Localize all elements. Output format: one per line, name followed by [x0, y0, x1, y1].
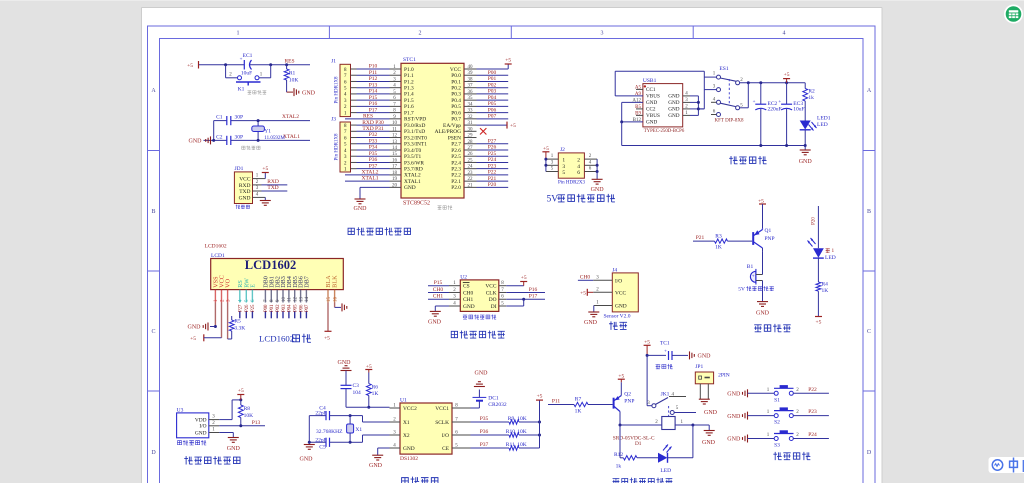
svg-text:P27: P27 [239, 304, 244, 312]
power +5 (reset) [187, 61, 198, 69]
svg-text:GND: GND [668, 107, 679, 113]
svg-text:CR2032: CR2032 [488, 402, 507, 408]
title text LCD1602显示 [259, 334, 311, 344]
svg-text:P16: P16 [369, 101, 378, 107]
comment text 温度传感器 [177, 440, 206, 445]
J4 pin1 to ground [584, 301, 612, 327]
svg-text:VO: VO [225, 278, 232, 287]
svg-text:CH0: CH0 [433, 287, 444, 293]
svg-text:BLK: BLK [332, 275, 339, 288]
JD1 pin 2 wire RXD [253, 179, 288, 185]
capacitor TC1 tantalum [647, 340, 688, 360]
svg-text:RES: RES [363, 113, 373, 119]
svg-text:5V: 5V [738, 287, 745, 293]
svg-text:C5: C5 [319, 444, 326, 450]
JD1 pin 4 wire to ground [253, 192, 271, 205]
svg-text:P35: P35 [369, 151, 378, 157]
svg-text:CC2: CC2 [646, 107, 656, 113]
svg-text:P15: P15 [434, 280, 443, 286]
svg-text:GND: GND [428, 320, 442, 326]
power +5 rail (clock pullups) [536, 394, 543, 448]
svg-text:X2: X2 [403, 433, 410, 439]
svg-text:EA/Vpp: EA/Vpp [443, 123, 461, 129]
svg-text:XTAL2: XTAL2 [282, 114, 299, 120]
power +5 (U3) [237, 388, 244, 400]
buzzer B1 5V [747, 251, 763, 301]
svg-text:P00: P00 [264, 304, 269, 312]
svg-text:P0.4: P0.4 [451, 98, 461, 104]
USB connector USB1 TYPEC-250D-BCP6 [643, 78, 685, 134]
svg-text:P14: P14 [369, 89, 378, 95]
wire switch pin1 pin3 feed [698, 71, 704, 109]
svg-text:P3.4/T0: P3.4/T0 [404, 148, 422, 154]
svg-text:I/O: I/O [442, 433, 449, 439]
capacitor C3 104 [341, 371, 362, 408]
svg-text:XTAL1: XTAL1 [283, 134, 300, 140]
USB1 left pin stubs [636, 89, 643, 115]
resistor R8 10K [238, 400, 253, 426]
svg-text:P15: P15 [369, 95, 378, 101]
svg-text:6: 6 [577, 170, 580, 176]
switch ES1 KFT DIP-8X8 [704, 66, 744, 124]
wire Q2 collector to R12 LED D1 [620, 425, 623, 458]
power +5 (J2) [542, 146, 549, 159]
svg-text:S2: S2 [774, 420, 780, 426]
svg-text:4: 4 [577, 164, 580, 170]
wire P21 base [693, 235, 752, 241]
svg-text:10uF: 10uF [241, 71, 252, 77]
svg-text:P3.3/INT1: P3.3/INT1 [404, 142, 427, 148]
no-ERC cross on pin 30 [480, 128, 486, 134]
svg-text:1K: 1K [822, 288, 829, 294]
svg-text:P0.3: P0.3 [451, 92, 461, 98]
svg-text:GND: GND [702, 440, 716, 446]
svg-text:P24: P24 [488, 157, 497, 163]
svg-text:GND: GND [756, 311, 770, 317]
wire U2 VCC to +5 [506, 275, 527, 286]
LCD data net labels rotated P00-P07 [264, 304, 310, 312]
svg-text:+5: +5 [644, 340, 650, 346]
MCU right pin stubs [464, 69, 477, 187]
svg-text:Pin HDR1X8: Pin HDR1X8 [335, 133, 340, 161]
resistor R5 3.3K [229, 316, 245, 339]
svg-text:+: + [664, 350, 667, 355]
svg-text:VDD: VDD [195, 417, 207, 423]
svg-text:P06: P06 [488, 107, 497, 113]
svg-text:R10: R10 [506, 429, 515, 435]
svg-text:R7: R7 [575, 397, 582, 403]
svg-text:P2.5: P2.5 [451, 154, 461, 160]
svg-text:GND: GND [227, 446, 241, 452]
wire U1 GND pin4 to ground [369, 448, 390, 469]
U1 right stubs numbers [452, 407, 471, 409]
wire U2 pin4 to ground [428, 306, 449, 325]
title text 独立按键 [773, 452, 810, 460]
svg-text:TC1: TC1 [660, 340, 670, 346]
wire VCC to +5 [221, 303, 223, 338]
svg-text:2: 2 [419, 31, 422, 37]
svg-text:RST/VPD: RST/VPD [404, 117, 426, 123]
LCD pin names rotated [213, 275, 339, 288]
wire P37 CE with resistor R11 10K [471, 442, 540, 450]
svg-text:GND: GND [727, 414, 741, 420]
green table extension icon [1004, 5, 1023, 24]
svg-text:P3.6/WR: P3.6/WR [404, 160, 424, 166]
svg-text:E: E [250, 284, 257, 288]
node junction dots reset [224, 63, 288, 66]
svg-text:P13: P13 [252, 420, 261, 426]
svg-text:DI: DI [491, 304, 497, 310]
svg-text:P2.2: P2.2 [451, 173, 461, 179]
svg-text:TXD P31: TXD P31 [362, 126, 383, 132]
J2 left pins wire to +5 [544, 154, 558, 171]
svg-text:P11: P11 [369, 70, 378, 76]
svg-text:VCC: VCC [239, 177, 251, 183]
svg-text:RXD P30: RXD P30 [362, 120, 384, 126]
svg-text:XTAL1: XTAL1 [404, 179, 421, 185]
battery DC1 CR2032 [471, 390, 507, 409]
svg-text:P07: P07 [305, 304, 310, 312]
capacitor C4 22pF [309, 405, 350, 420]
USB1 right pin stubs and numbers [683, 91, 690, 116]
svg-text:P16: P16 [529, 287, 538, 293]
svg-text:P3.5/T1: P3.5/T1 [404, 154, 422, 160]
svg-text:R9: R9 [508, 416, 515, 422]
svg-text:10K: 10K [289, 77, 299, 83]
ground (crystal) [189, 136, 216, 144]
svg-text:1: 1 [832, 248, 835, 254]
svg-text:1: 1 [562, 158, 565, 164]
value text SRD-05VDC-SL-C and D1 [613, 436, 655, 447]
svg-text:VCC: VCC [615, 290, 626, 296]
svg-text:USB1: USB1 [643, 78, 657, 84]
svg-text:P05: P05 [488, 101, 497, 107]
ground (relay) [702, 431, 716, 447]
JD1 pin 1 wire to +5 [253, 166, 269, 179]
wire CH1 to U2 pin3 [428, 294, 449, 300]
svg-text:+5: +5 [505, 58, 511, 64]
svg-text:P3.1/TxD: P3.1/TxD [404, 129, 425, 135]
wire X1 to crystal [349, 414, 390, 422]
svg-text:GND: GND [704, 410, 718, 416]
capacitor EC3 10uF [778, 83, 804, 146]
U2 left stubs and numbers [449, 281, 460, 306]
svg-text:GND: GND [300, 457, 314, 463]
wire RES to MCU pin 9 [345, 113, 390, 119]
wire VDD to +5 [219, 398, 242, 419]
svg-text:Y1: Y1 [264, 128, 271, 134]
comment text 单片机 [438, 205, 453, 210]
resistor R2 1k [803, 83, 815, 121]
svg-text:PSEN: PSEN [448, 135, 461, 141]
wire VCC pin40 to +5 [477, 58, 512, 70]
svg-text:3: 3 [562, 164, 565, 170]
svg-text:1K: 1K [715, 244, 722, 250]
svg-text:P20: P20 [812, 217, 817, 225]
svg-text:I/O: I/O [199, 424, 206, 430]
svg-text:SRD-05VDC-SL-C: SRD-05VDC-SL-C [613, 436, 655, 442]
svg-text:P02: P02 [488, 82, 497, 88]
LCD pin stubs [215, 290, 334, 303]
svg-text:GND: GND [403, 446, 415, 452]
svg-text:CH0: CH0 [580, 274, 591, 280]
title text 水位 [609, 321, 627, 330]
diode LED 红1 [808, 238, 836, 261]
svg-text:C: C [867, 329, 871, 335]
svg-text:JP1: JP1 [695, 364, 703, 370]
svg-text:P23: P23 [808, 409, 817, 415]
svg-text:DC1: DC1 [488, 395, 499, 401]
svg-text:+5: +5 [815, 320, 821, 326]
svg-text:3: 3 [601, 31, 604, 37]
zone divider ticks left and right [148, 150, 160, 152]
svg-text:GND: GND [668, 94, 679, 100]
comment text 下载口 [236, 205, 250, 209]
wire EA pin31 to +5 [477, 122, 517, 130]
sensor U3 body [177, 408, 209, 438]
resistor R3 1K [715, 234, 728, 251]
svg-text:CE: CE [442, 446, 450, 452]
svg-text:DO: DO [489, 297, 497, 303]
svg-text:P12: P12 [369, 76, 378, 82]
svg-text:C2: C2 [216, 134, 223, 140]
svg-text:+5: +5 [580, 291, 586, 297]
svg-text:GND: GND [354, 206, 368, 212]
power +5 (USB rail) [783, 72, 790, 83]
svg-text:RES: RES [284, 59, 294, 65]
LCD column wires [240, 312, 307, 319]
svg-text:CC1: CC1 [646, 87, 656, 93]
wire reset rail [199, 64, 310, 66]
svg-text:P2.6: P2.6 [451, 148, 461, 154]
svg-text:GND: GND [475, 371, 489, 377]
white schematic canvas [142, 8, 883, 483]
svg-text:+5: +5 [784, 72, 790, 78]
svg-text:P36: P36 [369, 157, 378, 163]
svg-text:D: D [151, 450, 156, 456]
svg-text:10K: 10K [517, 429, 527, 435]
capacitor C2 30P [216, 134, 243, 145]
svg-text:Pin HDR2X3: Pin HDR2X3 [558, 181, 586, 186]
svg-text:P04: P04 [488, 95, 497, 101]
svg-text:P32: P32 [369, 132, 378, 138]
svg-text:+5: +5 [521, 275, 527, 281]
svg-text:GND: GND [188, 325, 202, 331]
comment text 晶振电路 [242, 146, 260, 150]
svg-text:10K: 10K [517, 442, 527, 448]
svg-text:CH1: CH1 [463, 297, 473, 303]
capacitor EC1 10uF [240, 53, 253, 77]
svg-text:P0.7: P0.7 [451, 117, 461, 123]
svg-text:SCLK: SCLK [435, 420, 449, 426]
svg-text:P3.0/RxD: P3.0/RxD [404, 123, 426, 129]
pushbutton S1 P22 [727, 385, 829, 403]
MCU right pin names [435, 67, 462, 191]
svg-text:P22: P22 [808, 387, 817, 393]
svg-text:22pF: 22pF [315, 437, 326, 443]
svg-text:GND: GND [727, 437, 741, 443]
power +5 (R6) [365, 364, 372, 384]
svg-text:P22: P22 [488, 170, 497, 176]
U2 right stubs and numbers [499, 281, 507, 306]
svg-text:1k: 1k [808, 95, 814, 101]
wire VSS to ground [214, 303, 217, 329]
ground (USB power) [799, 146, 813, 166]
svg-text:B: B [867, 209, 871, 215]
svg-text:P20: P20 [488, 182, 497, 188]
svg-text:P26: P26 [245, 304, 250, 312]
resistor R12 1k [614, 452, 658, 470]
svg-text:P2.0: P2.0 [451, 185, 461, 191]
svg-text:P37: P37 [480, 442, 489, 448]
svg-text:J1: J1 [331, 59, 336, 65]
wire BLA to +5 [324, 303, 331, 342]
svg-text:5: 5 [562, 170, 565, 176]
ground (buzzer) [756, 302, 770, 317]
svg-text:VCC1: VCC1 [435, 406, 449, 412]
svg-text:B: B [151, 209, 155, 215]
svg-text:RXD: RXD [267, 179, 279, 185]
svg-text:JK1: JK1 [661, 392, 670, 398]
svg-text:JD1: JD1 [235, 166, 244, 172]
svg-text:D: D [867, 450, 872, 456]
svg-text:LED1: LED1 [817, 116, 831, 122]
svg-text:P01: P01 [270, 304, 275, 312]
svg-text:220uF: 220uF [768, 107, 782, 113]
svg-text:P3.7/RD: P3.7/RD [404, 166, 423, 172]
connector J2 Pin HDR2X3 [558, 147, 586, 186]
svg-text:GND: GND [591, 187, 605, 193]
svg-text:R6: R6 [372, 385, 379, 391]
svg-text:P03: P03 [282, 304, 287, 312]
svg-text:P2.7: P2.7 [451, 142, 461, 148]
svg-text:X1: X1 [403, 420, 410, 426]
svg-text:GND: GND [369, 463, 383, 469]
comment text 按键复位 [247, 90, 266, 94]
svg-text:+5: +5 [262, 166, 268, 172]
svg-text:P36: P36 [480, 429, 489, 435]
svg-text:TXD: TXD [267, 185, 278, 191]
ground (LCD VSS) [188, 323, 216, 331]
JD1 pin 3 wire TXD [253, 185, 288, 191]
svg-text:2PIN: 2PIN [718, 373, 730, 379]
svg-text:R4: R4 [822, 282, 829, 288]
svg-text:GND: GND [727, 392, 741, 398]
svg-text:DB7: DB7 [304, 276, 311, 288]
MCU right pin numbers 40-21 [468, 65, 474, 188]
clock chip U1 DS1302 body [400, 398, 452, 462]
svg-text:104: 104 [353, 390, 362, 396]
LCD pin numbers rotated [214, 297, 338, 303]
svg-text:R11: R11 [506, 442, 515, 448]
ground (DC1) [474, 371, 488, 387]
svg-text:Q2: Q2 [624, 392, 631, 398]
svg-text:D1: D1 [635, 441, 642, 447]
connector JD1 [234, 166, 252, 204]
svg-text:VCC: VCC [485, 284, 496, 290]
svg-text:R2: R2 [808, 89, 815, 95]
title text 单片机最小系统 [348, 227, 410, 235]
svg-text:5V: 5V [547, 195, 559, 205]
title text 5V外接备用电源 [547, 194, 615, 205]
svg-text:4: 4 [783, 31, 786, 37]
ground (TC1) [690, 351, 712, 359]
svg-text:30P: 30P [235, 115, 244, 121]
power +5 (Q1) [758, 199, 766, 229]
power +5 (Q2) [618, 374, 625, 383]
svg-text:GND: GND [338, 360, 352, 366]
svg-text:P34: P34 [369, 145, 378, 151]
wire P16 from CLK [506, 287, 545, 293]
svg-text:TYPEC-250D-BCP6: TYPEC-250D-BCP6 [644, 129, 685, 134]
svg-text:GND: GND [799, 159, 813, 165]
svg-text:CLK: CLK [486, 290, 497, 296]
svg-text:GND: GND [698, 354, 712, 360]
svg-text:C3: C3 [353, 383, 360, 389]
svg-text:A: A [867, 88, 872, 94]
svg-text:P1.0: P1.0 [404, 67, 414, 73]
svg-text:P21: P21 [488, 176, 497, 182]
svg-text:CS: CS [463, 284, 470, 290]
svg-text:R5: R5 [234, 319, 241, 325]
wire P20 LED branch [812, 206, 819, 248]
J4 pin2 to +5 [580, 287, 612, 296]
svg-text:P04: P04 [288, 304, 293, 312]
svg-text:GND: GND [189, 139, 203, 145]
pushbutton S2 P23 [727, 407, 829, 425]
wire X2 to crystal [349, 435, 390, 444]
sheet inner border [160, 39, 864, 483]
svg-text:GND: GND [404, 185, 416, 191]
svg-text:STC1: STC1 [403, 57, 416, 63]
svg-text:1k: 1k [616, 464, 622, 470]
svg-text:2: 2 [577, 158, 580, 164]
svg-text:B1: B1 [747, 264, 754, 270]
svg-text:LED: LED [817, 122, 828, 128]
power +5 (LED branch bottom) [815, 317, 822, 326]
svg-text:P02: P02 [276, 304, 281, 312]
svg-text:TXD: TXD [239, 189, 250, 195]
svg-text:P25: P25 [488, 151, 497, 157]
relay coil pins wires [620, 420, 709, 431]
svg-text:+: + [778, 100, 781, 105]
svg-text:VCC2: VCC2 [403, 406, 417, 412]
power +5 (TC1) [644, 340, 651, 357]
svg-text:P35: P35 [480, 416, 489, 422]
U1 left stubs numbers [390, 404, 401, 449]
svg-text:10K: 10K [244, 413, 254, 419]
svg-text:32.768KHZ: 32.768KHZ [316, 429, 343, 435]
wire USB top loop [615, 71, 704, 96]
transistor Q2 PNP [614, 382, 635, 426]
wire +5 rail top [740, 81, 806, 108]
svg-text:LED: LED [660, 468, 671, 474]
svg-text:11.0592M: 11.0592M [264, 136, 285, 141]
wire MCU pin 20 to ground [354, 187, 390, 212]
title text 继电器控制输出 [613, 478, 673, 483]
svg-text:10uF: 10uF [793, 107, 804, 113]
ground (J2) [591, 172, 605, 194]
svg-text:P1.5: P1.5 [404, 98, 414, 104]
svg-text:GND: GND [195, 430, 207, 436]
capacitor EC2 220uF [753, 83, 782, 146]
wires P27-P20 pins 28-21 [477, 138, 509, 188]
svg-text:GND: GND [302, 90, 316, 96]
title text 模数转换芯片 [451, 330, 505, 338]
svg-text:P2.1: P2.1 [451, 179, 461, 185]
svg-text:KFT DIP-8X8: KFT DIP-8X8 [715, 119, 744, 124]
wire P15 to U2 pin1 [428, 280, 449, 286]
